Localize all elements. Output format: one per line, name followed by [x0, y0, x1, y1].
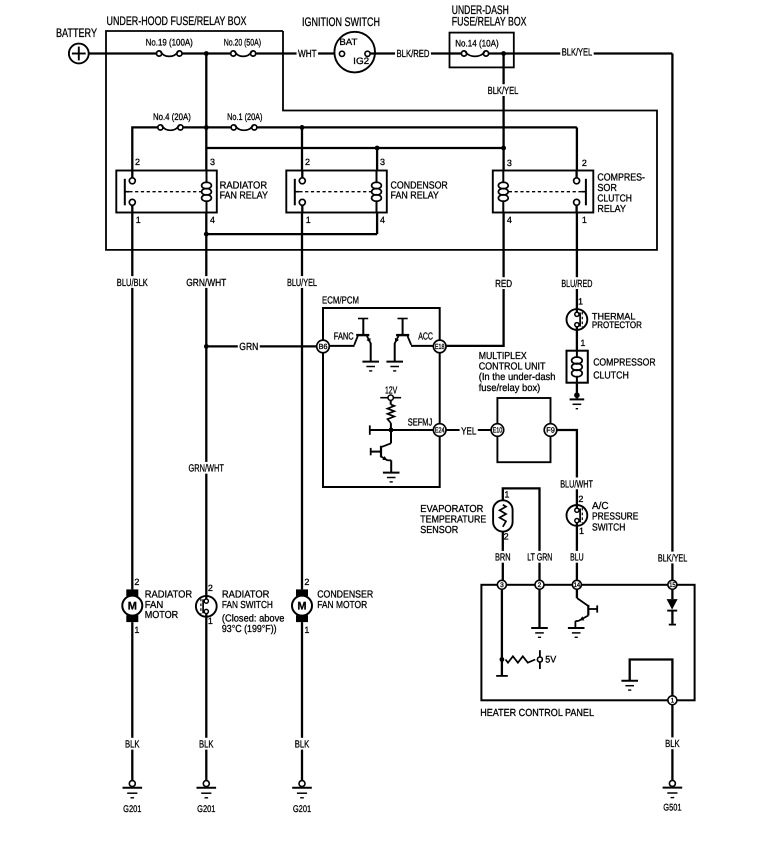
svg-text:IGNITION SWITCH: IGNITION SWITCH — [302, 15, 380, 29]
svg-text:G201: G201 — [293, 804, 311, 815]
svg-text:BLK: BLK — [125, 740, 140, 751]
svg-text:2: 2 — [582, 158, 587, 168]
svg-text:MULTIPLEX: MULTIPLEX — [479, 351, 527, 362]
svg-text:1: 1 — [580, 338, 585, 348]
svg-text:fuse/relay box): fuse/relay box) — [479, 383, 541, 394]
svg-text:2: 2 — [134, 577, 139, 587]
svg-text:2: 2 — [304, 577, 309, 587]
svg-text:FAN MOTOR: FAN MOTOR — [317, 600, 367, 611]
svg-text:No.20 (50A): No.20 (50A) — [224, 38, 261, 49]
svg-text:5V: 5V — [545, 654, 557, 665]
svg-text:1: 1 — [671, 698, 675, 705]
svg-text:COMPRES-: COMPRES- — [597, 172, 645, 183]
svg-text:FANC: FANC — [334, 331, 354, 342]
svg-text:1: 1 — [582, 215, 587, 225]
svg-text:4: 4 — [210, 215, 215, 225]
svg-text:GRN/WHT: GRN/WHT — [186, 278, 227, 289]
svg-text:FAN RELAY: FAN RELAY — [220, 191, 268, 202]
svg-text:No.4 (20A): No.4 (20A) — [153, 112, 191, 123]
svg-text:RELAY: RELAY — [597, 204, 626, 215]
svg-text:ACC: ACC — [418, 331, 433, 342]
svg-text:1: 1 — [504, 490, 509, 500]
svg-text:SEFMJ: SEFMJ — [408, 418, 433, 429]
svg-text:RADIATOR: RADIATOR — [220, 180, 268, 191]
svg-text:2: 2 — [578, 494, 583, 504]
svg-text:BLK: BLK — [665, 739, 680, 750]
svg-text:PROTECTOR: PROTECTOR — [592, 319, 642, 330]
svg-text:SWITCH: SWITCH — [592, 523, 625, 534]
svg-text:SENSOR: SENSOR — [420, 525, 458, 536]
svg-text:3: 3 — [380, 157, 385, 167]
svg-text:G201: G201 — [123, 804, 141, 815]
svg-text:WHT: WHT — [298, 49, 317, 60]
svg-text:2: 2 — [208, 583, 213, 593]
svg-text:CONTROL UNIT: CONTROL UNIT — [479, 362, 546, 373]
svg-text:1: 1 — [304, 625, 309, 635]
svg-text:BLU: BLU — [570, 553, 584, 564]
svg-text:M: M — [128, 601, 137, 613]
svg-text:SOR: SOR — [597, 183, 617, 194]
svg-text:No.1 (20A): No.1 (20A) — [227, 112, 262, 123]
svg-text:2: 2 — [504, 532, 509, 542]
svg-text:BAT: BAT — [339, 37, 357, 47]
svg-text:COMPRESSOR: COMPRESSOR — [593, 357, 655, 368]
svg-text:UNDER-HOOD FUSE/RELAY BOX: UNDER-HOOD FUSE/RELAY BOX — [107, 14, 247, 28]
svg-text:No.19 (100A): No.19 (100A) — [146, 38, 193, 49]
svg-text:GRN/WHT: GRN/WHT — [189, 464, 225, 475]
svg-text:FAN RELAY: FAN RELAY — [391, 191, 439, 202]
svg-text:YEL: YEL — [461, 426, 476, 437]
svg-text:A/C: A/C — [592, 501, 609, 512]
svg-text:BLU/YEL: BLU/YEL — [287, 278, 317, 289]
svg-text:BLU/RED: BLU/RED — [561, 279, 592, 290]
svg-text:PRESSURE: PRESSURE — [592, 512, 639, 523]
svg-text:2: 2 — [135, 157, 140, 167]
svg-text:MOTOR: MOTOR — [145, 610, 179, 621]
svg-text:93°C (199°F)): 93°C (199°F)) — [222, 624, 277, 635]
svg-text:CLUTCH: CLUTCH — [597, 194, 632, 205]
svg-text:BLK/YEL: BLK/YEL — [658, 553, 688, 564]
svg-text:E24: E24 — [435, 426, 445, 435]
svg-text:LT GRN: LT GRN — [527, 553, 552, 564]
svg-text:3: 3 — [500, 582, 504, 589]
svg-text:(In the under-dash: (In the under-dash — [479, 372, 556, 383]
svg-text:BRN: BRN — [495, 553, 511, 564]
svg-text:No.14 (10A): No.14 (10A) — [455, 38, 499, 49]
svg-text:3: 3 — [507, 158, 512, 168]
svg-text:M: M — [297, 601, 306, 613]
svg-text:GRN: GRN — [239, 342, 258, 353]
svg-text:ECM/PCM: ECM/PCM — [322, 296, 359, 307]
svg-text:1: 1 — [306, 215, 311, 225]
svg-text:4: 4 — [507, 215, 512, 225]
svg-text:1: 1 — [578, 296, 583, 306]
svg-text:F9: F9 — [546, 426, 555, 435]
svg-text:BLK/YEL: BLK/YEL — [488, 86, 519, 97]
svg-text:RADIATOR: RADIATOR — [222, 590, 270, 601]
svg-text:BLU/WHT: BLU/WHT — [560, 479, 593, 490]
svg-text:G501: G501 — [663, 803, 681, 814]
svg-text:1: 1 — [208, 616, 213, 626]
svg-text:4: 4 — [380, 215, 385, 225]
svg-text:EVAPORATOR: EVAPORATOR — [420, 504, 483, 515]
svg-text:IG2: IG2 — [353, 56, 369, 66]
svg-text:BLU/BLK: BLU/BLK — [117, 278, 148, 289]
svg-text:BLK/RED: BLK/RED — [397, 49, 430, 60]
svg-text:3: 3 — [210, 157, 215, 167]
svg-text:CLUTCH: CLUTCH — [593, 370, 629, 381]
svg-text:CONDENSOR: CONDENSOR — [391, 180, 448, 191]
svg-text:BLK: BLK — [295, 740, 310, 751]
svg-text:TEMPERATURE: TEMPERATURE — [420, 515, 486, 526]
svg-text:15: 15 — [669, 582, 676, 589]
svg-text:1: 1 — [136, 215, 141, 225]
svg-text:FAN SWITCH: FAN SWITCH — [222, 600, 273, 611]
svg-text:RED: RED — [495, 279, 512, 290]
svg-text:BLK: BLK — [199, 740, 214, 751]
svg-text:G201: G201 — [197, 804, 215, 815]
svg-text:E18: E18 — [435, 342, 445, 351]
svg-text:E10: E10 — [493, 426, 503, 435]
svg-text:B6: B6 — [318, 342, 327, 351]
svg-text:2: 2 — [538, 582, 542, 589]
svg-text:1: 1 — [134, 625, 139, 635]
svg-text:1: 1 — [579, 526, 584, 536]
svg-text:BLK/YEL: BLK/YEL — [562, 48, 593, 59]
svg-text:2: 2 — [305, 157, 310, 167]
svg-text:FUSE/RELAY BOX: FUSE/RELAY BOX — [452, 15, 527, 29]
svg-text:14: 14 — [574, 582, 581, 589]
svg-text:BATTERY: BATTERY — [56, 26, 97, 40]
svg-text:HEATER CONTROL PANEL: HEATER CONTROL PANEL — [480, 708, 594, 719]
